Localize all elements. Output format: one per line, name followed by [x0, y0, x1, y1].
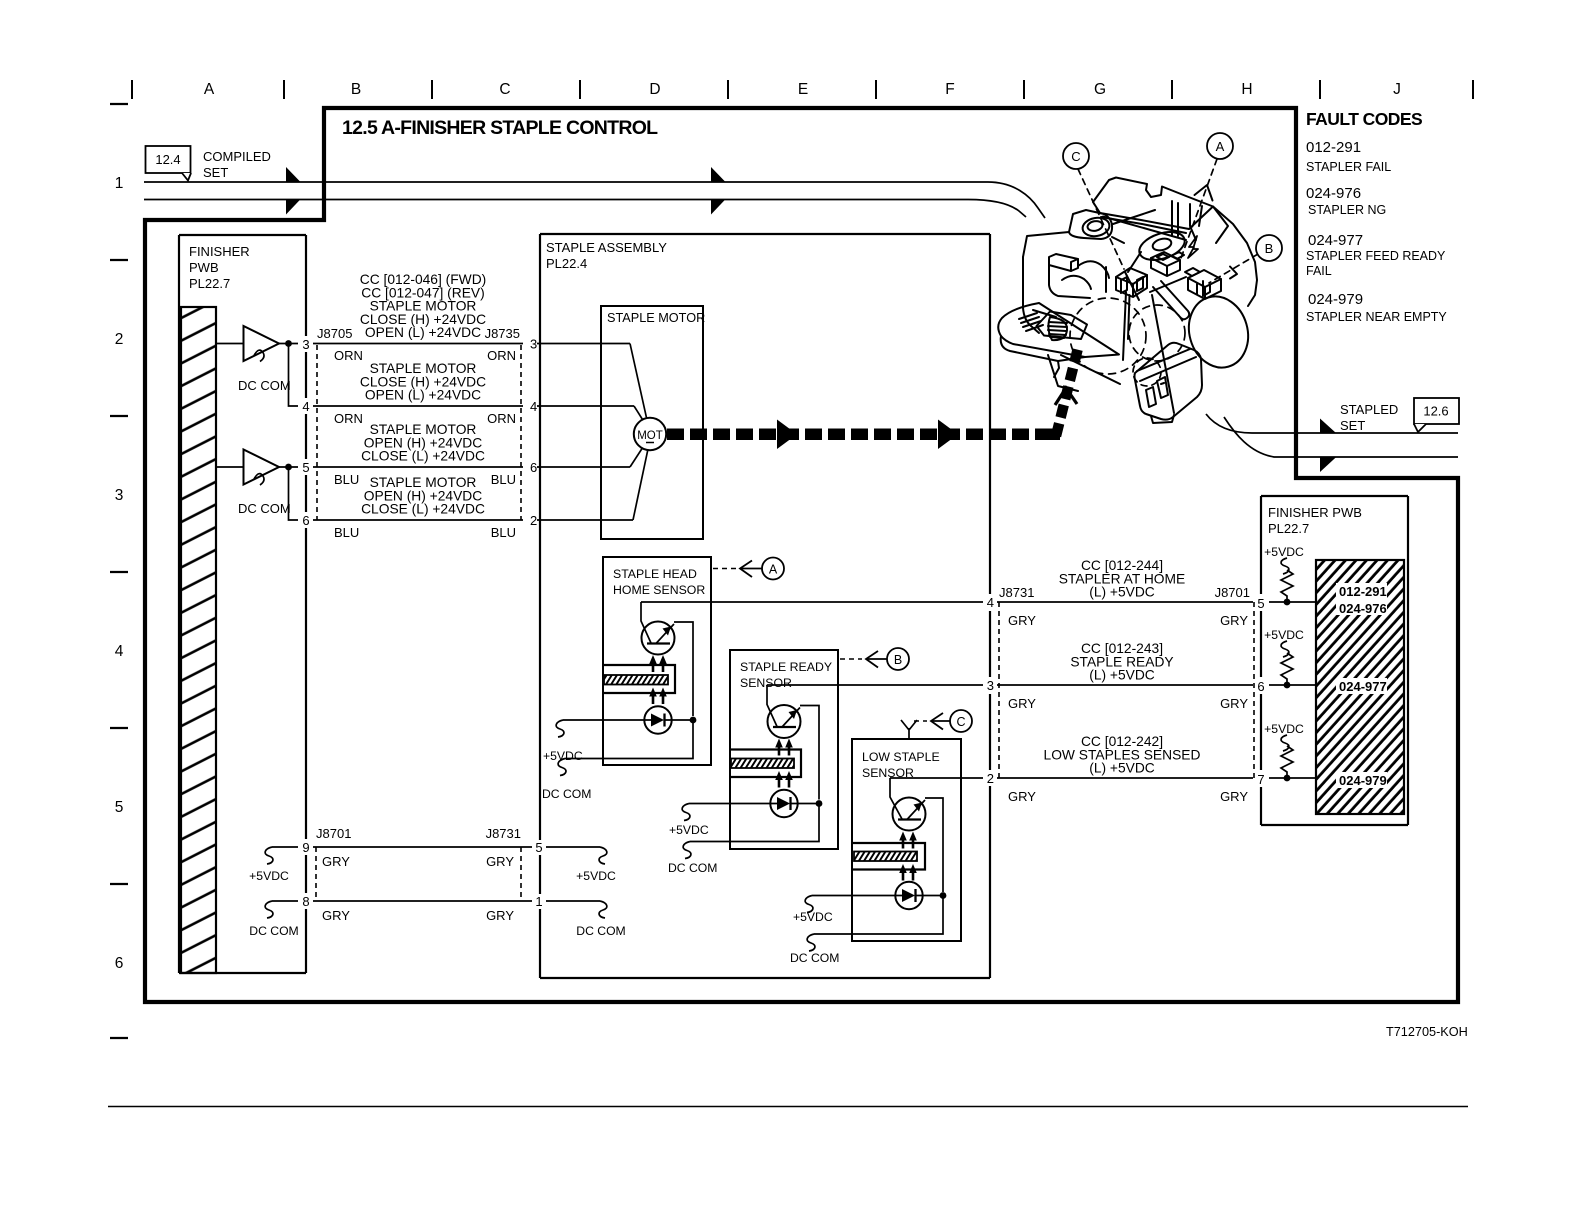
svg-text:012-291: 012-291	[1339, 584, 1387, 599]
resistor R2	[1264, 628, 1304, 688]
svg-text:5: 5	[302, 460, 309, 475]
svg-text:STAPLER NEAR EMPTY: STAPLER NEAR EMPTY	[1306, 310, 1447, 324]
svg-text:6: 6	[302, 513, 309, 528]
staple path arrow big 2	[938, 420, 958, 450]
connector hook DC COM	[558, 759, 566, 776]
svg-text:024-976: 024-976	[1306, 185, 1361, 202]
svg-text:H: H	[1241, 81, 1252, 98]
top plate	[1093, 178, 1213, 230]
leader dashed to A	[1181, 159, 1217, 258]
svg-text:BLU: BLU	[334, 472, 359, 487]
value label CC motor close	[360, 361, 486, 403]
svg-text:12.5 A-FINISHER STAPLE CONTROL: 12.5 A-FINISHER STAPLE CONTROL	[342, 117, 658, 139]
wire bus to U1	[216, 343, 244, 345]
row numbers	[115, 175, 124, 972]
svg-text:4: 4	[530, 399, 537, 414]
wire DC COM return	[690, 804, 819, 842]
svg-text:DC COM: DC COM	[238, 501, 291, 516]
interrupter flag	[854, 852, 917, 862]
sensor slot channel	[852, 843, 925, 870]
svg-text:ORN: ORN	[334, 411, 363, 426]
wire LED to junction	[665, 719, 691, 721]
connector hook DC COM right	[599, 901, 607, 918]
connector hook DC COM	[683, 842, 691, 859]
column header ticks	[132, 80, 1473, 99]
node junction dot	[940, 892, 947, 899]
motor MOT	[634, 418, 666, 450]
svg-text:4: 4	[302, 399, 309, 414]
value label CC motor open2	[361, 475, 485, 517]
flow arrow 4	[711, 200, 725, 215]
value label CC motor fwd/rev	[360, 272, 487, 340]
stapled set wire lower	[1224, 417, 1458, 457]
svg-text:(L) +5VDC: (L) +5VDC	[1089, 668, 1155, 683]
svg-text:STAPLER NG: STAPLER NG	[1308, 203, 1386, 217]
staple motor box	[601, 306, 703, 539]
svg-text:GRY: GRY	[486, 908, 514, 923]
resistor R1	[1264, 545, 1304, 605]
wires fan into motor	[630, 344, 647, 421]
svg-text:CLOSE (L) +24VDC: CLOSE (L) +24VDC	[361, 449, 485, 464]
connector hook +5VDC	[556, 720, 564, 737]
svg-text:OPEN (L) +24VDC: OPEN (L) +24VDC	[365, 388, 481, 403]
window wave humps	[1078, 261, 1109, 278]
wire +5VDC GRY	[313, 846, 532, 848]
wire compiled set upper	[144, 182, 1045, 218]
connector A part	[1151, 252, 1180, 266]
value label CC stapler at home	[1059, 558, 1186, 600]
sensor Q2 STAPLE READY SENSOR	[668, 648, 909, 875]
wire bus to U2	[216, 466, 244, 468]
wire DC COM return	[565, 720, 693, 759]
phototransistor	[642, 622, 675, 655]
svg-text:C: C	[1071, 149, 1080, 164]
svg-text:+5VDC: +5VDC	[1264, 628, 1304, 642]
svg-text:SET: SET	[203, 165, 228, 180]
flow arrow 5	[1320, 419, 1336, 434]
wire DC COM return	[814, 896, 943, 935]
svg-text:5: 5	[535, 840, 542, 855]
value label CC low staples sensed	[1044, 734, 1201, 776]
svg-text:(L) +5VDC: (L) +5VDC	[1089, 761, 1155, 776]
svg-text:GRY: GRY	[1008, 696, 1036, 711]
sensor Q3 LOW STAPLE SENSOR	[790, 710, 972, 965]
window step box	[1049, 254, 1078, 271]
svg-text:9: 9	[302, 840, 309, 855]
svg-text:DC COM: DC COM	[668, 861, 717, 875]
svg-text:PL22.7: PL22.7	[189, 276, 230, 291]
wire +5VDC stub left	[272, 846, 298, 848]
svg-text:MOT: MOT	[637, 430, 663, 442]
svg-text:F: F	[945, 81, 954, 98]
connector C part	[1116, 268, 1147, 284]
svg-text:HOME SENSOR: HOME SENSOR	[613, 583, 705, 597]
body filler edges	[1103, 217, 1186, 241]
dashed gear circle 2	[1129, 305, 1185, 361]
staple path arrow big 1	[777, 420, 797, 450]
staple assembly box	[540, 234, 990, 978]
svg-text:+5VDC: +5VDC	[793, 910, 833, 924]
column letters	[204, 81, 1401, 98]
svg-text:BLU: BLU	[334, 525, 359, 540]
tray platform	[998, 303, 1119, 357]
svg-text:STAPLER FAIL: STAPLER FAIL	[1306, 160, 1391, 174]
svg-text:A: A	[1216, 139, 1225, 154]
svg-text:C: C	[499, 81, 510, 98]
node junction dot	[285, 340, 292, 347]
svg-text:6: 6	[530, 460, 537, 475]
driver U2	[244, 450, 280, 486]
center belt lines	[1128, 295, 1174, 413]
connector hook DC COM	[265, 901, 273, 918]
svg-text:PL22.7: PL22.7	[1268, 521, 1309, 536]
svg-text:6: 6	[115, 955, 124, 972]
phototransistor	[893, 798, 926, 831]
PWB hatched bus bar	[181, 307, 216, 973]
leader to B	[840, 658, 862, 660]
LED	[895, 882, 922, 909]
svg-text:1: 1	[115, 175, 124, 192]
svg-text:024-977: 024-977	[1308, 232, 1363, 249]
callout tag 12.4	[146, 146, 192, 181]
connector hook +5VDC	[805, 896, 813, 913]
flow arrow 3	[711, 167, 725, 182]
svg-text:4: 4	[987, 595, 994, 610]
svg-text:A: A	[204, 81, 215, 98]
svg-text:OPEN (L) +24VDC: OPEN (L) +24VDC	[365, 325, 481, 340]
svg-text:STAPLE ASSEMBLY: STAPLE ASSEMBLY	[546, 240, 667, 255]
svg-text:GRY: GRY	[1008, 789, 1036, 804]
wire compiled set lower	[144, 200, 1026, 218]
finisher PWB (left) box	[179, 235, 306, 973]
sensor Q1 STAPLE HEAD HOME SENSOR	[542, 557, 784, 801]
svg-text:GRY: GRY	[486, 854, 514, 869]
wire DC COM GRY	[313, 900, 532, 902]
svg-text:STAPLE READY: STAPLE READY	[740, 660, 832, 674]
svg-text:024-976: 024-976	[1339, 601, 1387, 616]
svg-text:GRY: GRY	[322, 854, 350, 869]
svg-text:12.4: 12.4	[155, 152, 180, 167]
leader to A	[713, 568, 737, 570]
node junction dot	[285, 464, 292, 471]
svg-text:024-977: 024-977	[1339, 679, 1387, 694]
svg-text:GRY: GRY	[1220, 613, 1248, 628]
wire U1 output to pin 3	[279, 343, 298, 345]
svg-text:J8731: J8731	[999, 585, 1034, 600]
bottom connector box	[1135, 343, 1203, 420]
svg-text:+5VDC: +5VDC	[576, 869, 616, 883]
svg-text:2: 2	[115, 331, 124, 348]
label circle C	[1063, 143, 1089, 169]
stapled set wire upper	[1206, 414, 1458, 433]
svg-text:DC COM: DC COM	[238, 378, 291, 393]
svg-text:PWB: PWB	[189, 260, 219, 275]
connector hook +5VDC right	[599, 847, 607, 864]
svg-text:J8705: J8705	[317, 326, 352, 341]
svg-text:CLOSE (L) +24VDC: CLOSE (L) +24VDC	[361, 502, 485, 517]
connector B part	[1188, 270, 1221, 287]
svg-text:BLU: BLU	[491, 472, 516, 487]
svg-text:024-979: 024-979	[1339, 773, 1387, 788]
leader Y mast to C	[901, 720, 917, 739]
svg-text:+5VDC: +5VDC	[1264, 722, 1304, 736]
wire junction down to pin 6	[289, 467, 299, 520]
svg-text:GRY: GRY	[322, 908, 350, 923]
svg-text:STAPLE MOTOR: STAPLE MOTOR	[607, 311, 705, 325]
svg-text:2: 2	[530, 513, 537, 528]
staple path chain horizontal	[667, 429, 1050, 441]
flow arrow 1	[286, 167, 300, 182]
node junction dot	[816, 800, 823, 807]
svg-text:GRY: GRY	[1220, 696, 1248, 711]
svg-text:J8701: J8701	[1215, 585, 1250, 600]
interrupter flag	[604, 675, 668, 685]
cylinder motor	[1181, 289, 1257, 374]
svg-text:G: G	[1094, 81, 1106, 98]
svg-text:3: 3	[987, 678, 994, 693]
svg-text:BLU: BLU	[491, 525, 516, 540]
wire pin6 BLU	[313, 519, 523, 521]
svg-text:3: 3	[115, 487, 124, 504]
peak blade	[1190, 204, 1202, 240]
wire junction down to pin 4	[289, 344, 299, 407]
wire U2 output to pin 5	[279, 466, 298, 468]
connector hook +5VDC	[265, 847, 273, 864]
svg-text:012-291: 012-291	[1306, 139, 1361, 156]
wire +5VDC to LED	[563, 719, 651, 721]
pusher bar	[1153, 281, 1189, 319]
svg-text:B: B	[1265, 241, 1274, 256]
left body block	[1023, 232, 1069, 257]
light arrows	[899, 832, 917, 881]
grommet oval plate	[1136, 227, 1188, 265]
interrupter flag	[731, 759, 794, 769]
outer frame and title box frame	[145, 108, 1458, 1002]
svg-text:J: J	[1393, 81, 1401, 98]
svg-text:(L) +5VDC: (L) +5VDC	[1089, 585, 1155, 600]
row margin dashes	[110, 104, 128, 1038]
wire pin5 BLU	[313, 466, 523, 468]
svg-text:7: 7	[1257, 772, 1264, 787]
wire low sensor signal	[890, 777, 983, 779]
sensor slot channel	[730, 750, 801, 778]
svg-text:STAPLED: STAPLED	[1340, 402, 1398, 417]
sensor slot channel	[603, 665, 675, 693]
svg-text:T712705-KOH: T712705-KOH	[1386, 1025, 1468, 1039]
foot	[1151, 415, 1174, 423]
svg-text:STAPLER FEED READY: STAPLER FEED READY	[1306, 249, 1446, 263]
wire home sensor signal	[641, 601, 983, 603]
fault hatched block	[1316, 560, 1404, 814]
svg-text:PL22.4: PL22.4	[546, 256, 587, 271]
svg-text:FAIL: FAIL	[1306, 264, 1332, 278]
svg-text:B: B	[351, 81, 361, 98]
svg-text:DC COM: DC COM	[790, 951, 839, 965]
footer rule	[108, 1106, 1468, 1108]
svg-text:J8735: J8735	[485, 326, 520, 341]
svg-text:1: 1	[535, 894, 542, 909]
wire LED to junction	[791, 803, 817, 805]
svg-text:A: A	[769, 563, 778, 577]
long edge below tray	[1061, 355, 1120, 384]
stapler assembly illustration	[998, 159, 1258, 423]
light arrows	[775, 739, 793, 788]
svg-text:GRY: GRY	[1008, 613, 1036, 628]
callout tag 12.6	[1414, 398, 1459, 432]
dashed gear circle 3	[1133, 358, 1161, 386]
staple path arrow on diagonal	[1055, 388, 1077, 405]
staple path elbow	[1046, 429, 1060, 441]
svg-text:5: 5	[1257, 596, 1264, 611]
svg-text:LOW STAPLE: LOW STAPLE	[862, 750, 940, 764]
svg-text:ORN: ORN	[334, 348, 363, 363]
svg-text:B: B	[894, 653, 902, 667]
svg-text:8: 8	[302, 894, 309, 909]
svg-text:DC COM: DC COM	[542, 787, 591, 801]
svg-text:3: 3	[530, 337, 537, 352]
svg-text:+5VDC: +5VDC	[669, 823, 709, 837]
connector hook DC COM	[807, 934, 815, 951]
wire pin4 ORN	[313, 405, 523, 407]
wire +5VDC to LED	[689, 803, 777, 805]
tray fan lines	[1019, 313, 1043, 331]
value label CC staple ready	[1070, 641, 1173, 683]
fault labels on hatch	[1336, 583, 1387, 788]
svg-text:GRY: GRY	[1220, 789, 1248, 804]
flow arrow 6	[1320, 457, 1336, 472]
connector hook +5VDC	[682, 804, 690, 821]
svg-text:C: C	[956, 715, 965, 729]
svg-text:SENSOR: SENSOR	[740, 676, 792, 690]
wire pin3 ORN	[313, 343, 523, 345]
right body block	[1213, 207, 1257, 307]
value label CC motor open	[361, 422, 485, 464]
LED	[644, 706, 671, 733]
zigzag bolt	[1188, 236, 1198, 258]
svg-text:2: 2	[987, 771, 994, 786]
svg-text:ORN: ORN	[487, 411, 516, 426]
staple path chain diagonal	[1056, 344, 1079, 436]
svg-text:ORN: ORN	[487, 348, 516, 363]
svg-text:J8731: J8731	[486, 826, 521, 841]
svg-text:D: D	[649, 81, 660, 98]
svg-text:+5VDC: +5VDC	[249, 869, 289, 883]
LED	[770, 790, 797, 817]
wire ready sensor signal	[767, 684, 983, 686]
label circle B	[1256, 235, 1282, 261]
driver U1	[244, 326, 280, 362]
light arrows	[649, 655, 667, 704]
svg-text:4: 4	[115, 643, 124, 660]
svg-text:024-979: 024-979	[1308, 291, 1363, 308]
svg-text:DC COM: DC COM	[576, 924, 625, 938]
svg-text:6: 6	[1257, 679, 1264, 694]
svg-text:3: 3	[302, 337, 309, 352]
svg-text:E: E	[798, 81, 808, 98]
svg-text:FAULT CODES: FAULT CODES	[1306, 109, 1422, 129]
leader dashed to C	[1078, 169, 1124, 269]
svg-text:FINISHER: FINISHER	[189, 244, 250, 259]
svg-text:SET: SET	[1340, 418, 1365, 433]
node junction dot	[690, 717, 697, 724]
body top edge right	[1113, 210, 1155, 224]
svg-text:J8701: J8701	[316, 826, 351, 841]
svg-text:STAPLE HEAD: STAPLE HEAD	[613, 567, 697, 581]
svg-text:COMPILED: COMPILED	[203, 149, 271, 164]
leader dashed to B	[1209, 254, 1258, 283]
label circle A	[1207, 133, 1233, 159]
svg-text:12.6: 12.6	[1423, 404, 1448, 419]
phototransistor	[768, 705, 801, 738]
svg-text:FINISHER PWB: FINISHER PWB	[1268, 505, 1362, 520]
resistor R3	[1264, 722, 1304, 781]
svg-text:+5VDC: +5VDC	[543, 749, 583, 763]
svg-text:DC COM: DC COM	[249, 924, 298, 938]
wire LED to junction	[916, 895, 941, 897]
wire DC COM stub left	[272, 900, 298, 902]
roller knob	[1037, 312, 1088, 340]
flow arrow 2	[286, 200, 300, 215]
svg-text:5: 5	[115, 799, 124, 816]
svg-text:+5VDC: +5VDC	[1264, 545, 1304, 559]
dashed gear circle 1	[1070, 298, 1146, 374]
finisher PWB (right) box	[1261, 496, 1408, 825]
left block with C ring	[1069, 210, 1112, 239]
wire +5VDC to LED	[812, 895, 902, 897]
